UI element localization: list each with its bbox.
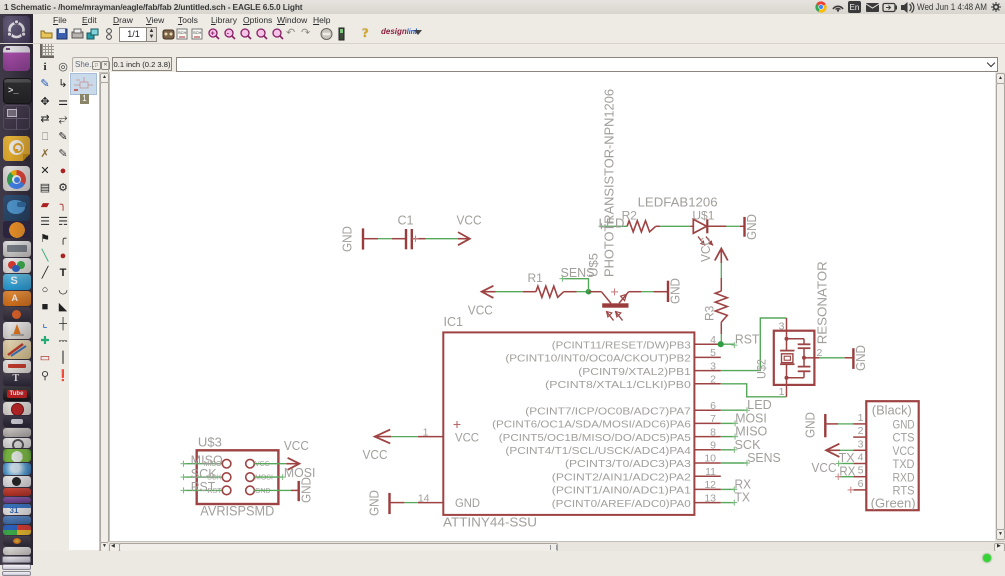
svg-text:SCK: SCK bbox=[191, 467, 218, 481]
svg-text:LED: LED bbox=[747, 398, 772, 412]
svg-text:GND: GND bbox=[893, 420, 915, 432]
svg-text:(PCINT6/OC1A/SDA/MOSI/ADC6)PA6: (PCINT6/OC1A/SDA/MOSI/ADC6)PA6 bbox=[492, 420, 691, 431]
svg-text:CTS: CTS bbox=[893, 433, 915, 445]
svg-text:GND: GND bbox=[300, 477, 314, 503]
svg-text:GND: GND bbox=[255, 488, 271, 495]
svg-text:ATTINY44-SSU: ATTINY44-SSU bbox=[443, 515, 537, 530]
svg-text:10: 10 bbox=[704, 453, 716, 465]
svg-text:(PCINT9/XTAL2)PB1: (PCINT9/XTAL2)PB1 bbox=[578, 367, 691, 378]
svg-text:GND: GND bbox=[804, 412, 818, 438]
svg-text:6: 6 bbox=[710, 400, 716, 412]
svg-text:(PCINT8/XTAL1/CLKI)PB0: (PCINT8/XTAL1/CLKI)PB0 bbox=[545, 380, 691, 391]
svg-text:3: 3 bbox=[710, 360, 716, 372]
svg-text:(PCINT3/T0/ADC3)PA3: (PCINT3/T0/ADC3)PA3 bbox=[565, 459, 691, 470]
svg-text:VCC: VCC bbox=[468, 304, 493, 318]
svg-text:2: 2 bbox=[858, 425, 864, 437]
svg-text:SENS: SENS bbox=[747, 451, 781, 465]
svg-text:(PCINT10/INT0/OC0A/CKOUT)PB2: (PCINT10/INT0/OC0A/CKOUT)PB2 bbox=[505, 354, 691, 365]
svg-text:MOSI: MOSI bbox=[735, 411, 767, 425]
svg-text:VCC: VCC bbox=[893, 446, 915, 458]
svg-text:VCC: VCC bbox=[284, 439, 309, 453]
svg-text:IC1: IC1 bbox=[444, 315, 464, 329]
svg-text:RXD: RXD bbox=[893, 472, 915, 484]
svg-text:12: 12 bbox=[704, 479, 716, 491]
svg-text:En: En bbox=[850, 3, 860, 12]
svg-text:5: 5 bbox=[858, 465, 864, 477]
svg-text:5: 5 bbox=[710, 347, 716, 359]
svg-text:13: 13 bbox=[704, 492, 716, 504]
svg-text:8: 8 bbox=[710, 426, 716, 438]
svg-text:SCH: SCH bbox=[178, 30, 187, 35]
svg-text:GND: GND bbox=[745, 214, 759, 240]
svg-text:MISO: MISO bbox=[191, 453, 223, 467]
svg-text:(PCINT5/OC1B/MISO/DO/ADC5)PA5: (PCINT5/OC1B/MISO/DO/ADC5)PA5 bbox=[499, 433, 691, 444]
svg-text:(Green): (Green) bbox=[871, 497, 916, 511]
svg-text:1: 1 bbox=[423, 426, 429, 438]
svg-text:4: 4 bbox=[858, 452, 864, 464]
svg-text:LEDFAB1206: LEDFAB1206 bbox=[638, 196, 718, 210]
svg-text:14: 14 bbox=[418, 492, 430, 504]
svg-text:RESONATOR: RESONATOR bbox=[816, 261, 830, 344]
svg-text:2: 2 bbox=[817, 347, 823, 359]
svg-text:+: + bbox=[211, 30, 215, 37]
svg-text:1: 1 bbox=[779, 386, 785, 398]
svg-text:2: 2 bbox=[710, 374, 716, 386]
svg-text:VCC: VCC bbox=[812, 461, 837, 475]
svg-text:GND: GND bbox=[669, 278, 683, 304]
svg-text:3: 3 bbox=[779, 321, 785, 333]
svg-text:VCC: VCC bbox=[699, 237, 713, 262]
svg-text:7: 7 bbox=[710, 413, 716, 425]
svg-text:(PCINT0/AREF/ADC0)PA0: (PCINT0/AREF/ADC0)PA0 bbox=[552, 499, 691, 510]
svg-text:VCC: VCC bbox=[455, 431, 479, 445]
svg-text:(Black): (Black) bbox=[872, 403, 912, 417]
svg-text:VCC: VCC bbox=[255, 461, 270, 468]
svg-text:MOSI: MOSI bbox=[255, 475, 273, 482]
svg-text:MISO: MISO bbox=[735, 425, 767, 439]
svg-text:U$3: U$3 bbox=[198, 435, 222, 449]
svg-text:11: 11 bbox=[705, 466, 716, 478]
svg-text:SCK: SCK bbox=[735, 438, 762, 452]
svg-text:TX: TX bbox=[839, 451, 856, 465]
svg-text:VCC: VCC bbox=[457, 214, 482, 228]
svg-text:R3: R3 bbox=[703, 305, 717, 321]
svg-text:C1: C1 bbox=[398, 214, 414, 228]
svg-text:Wed Jun 1 4:48 AM: Wed Jun 1 4:48 AM bbox=[917, 2, 987, 13]
svg-text:RST: RST bbox=[191, 480, 216, 494]
svg-text:(PCINT4/T1/SCL/USCK/ADC4)PA4: (PCINT4/T1/SCL/USCK/ADC4)PA4 bbox=[505, 446, 691, 457]
svg-text:GND: GND bbox=[368, 490, 382, 516]
svg-text:VCC: VCC bbox=[363, 448, 388, 462]
svg-text:GND: GND bbox=[854, 345, 868, 371]
svg-text:SENS: SENS bbox=[561, 266, 595, 280]
svg-text:TXD: TXD bbox=[893, 459, 915, 471]
svg-text:1: 1 bbox=[858, 412, 864, 424]
svg-text:AVRISPSMD: AVRISPSMD bbox=[200, 504, 274, 519]
svg-text:GND: GND bbox=[455, 496, 480, 510]
svg-text:(PCINT11/RESET/DW)PB3: (PCINT11/RESET/DW)PB3 bbox=[552, 340, 692, 351]
svg-text:SCH: SCH bbox=[193, 30, 202, 35]
svg-text:4: 4 bbox=[710, 334, 716, 346]
svg-text:GND: GND bbox=[341, 226, 355, 252]
svg-text:3: 3 bbox=[858, 438, 864, 450]
svg-text:6: 6 bbox=[858, 478, 864, 490]
svg-text:RX: RX bbox=[735, 477, 752, 491]
svg-text:U$2: U$2 bbox=[755, 359, 769, 379]
svg-text:RX: RX bbox=[839, 464, 856, 478]
svg-text:(PCINT1/AIN0/ADC1)PA1: (PCINT1/AIN0/ADC1)PA1 bbox=[552, 486, 692, 497]
svg-text:RST: RST bbox=[735, 332, 760, 346]
svg-text:R1: R1 bbox=[528, 271, 544, 285]
svg-text:(PCINT7/ICP/OC0B/ADC7)PA7: (PCINT7/ICP/OC0B/ADC7)PA7 bbox=[525, 406, 691, 417]
svg-text:U$1: U$1 bbox=[692, 209, 714, 223]
svg-text:TX: TX bbox=[735, 491, 751, 505]
svg-text:9: 9 bbox=[710, 440, 716, 452]
svg-text:(PCINT2/AIN1/ADC2)PA2: (PCINT2/AIN1/ADC2)PA2 bbox=[552, 472, 692, 483]
svg-text:PHOTOTRANSISTOR-NPN1206: PHOTOTRANSISTOR-NPN1206 bbox=[603, 89, 617, 277]
